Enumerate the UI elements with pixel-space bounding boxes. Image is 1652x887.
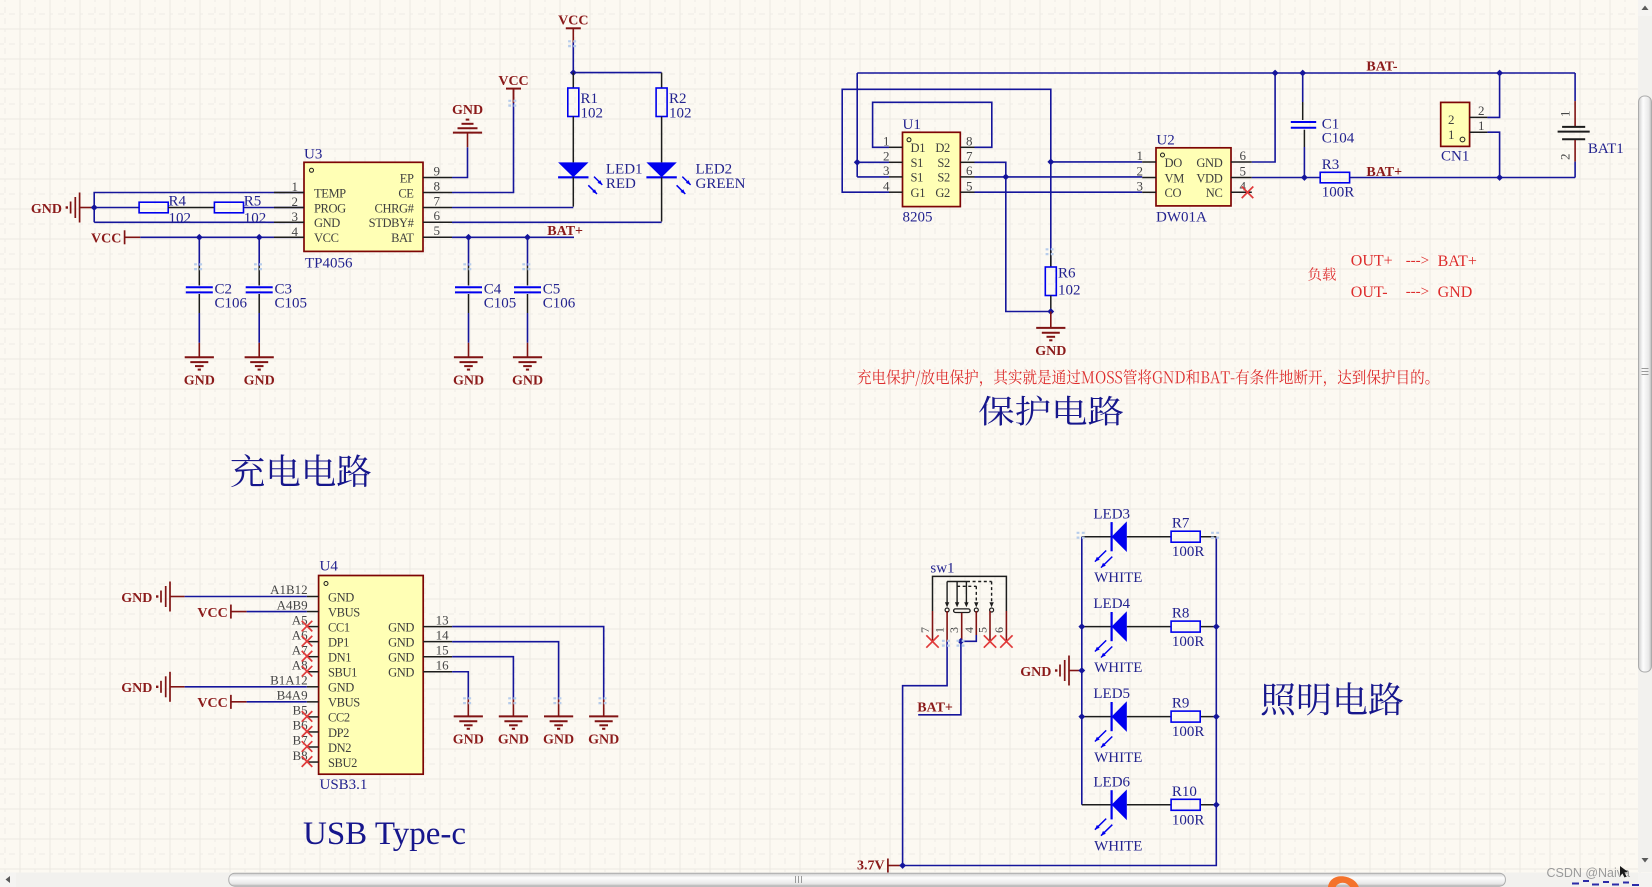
svg-text:BAT+: BAT+ [1366,165,1402,180]
wire pin16 to ground [452,672,468,700]
svg-text:GND: GND [388,666,414,680]
wire R4 to R5 [168,207,214,209]
junction sw1 pin3 [958,638,965,645]
wire LED2 to STDBY# pin6 [661,177,663,221]
ground GND usb4 [588,716,619,747]
wire TEMP net pin1 loop [94,193,304,223]
ground GND below C3 [244,357,275,388]
resistor R10 [1171,784,1204,829]
svg-text:2: 2 [292,194,299,209]
wire R3 to battery BAT+ rail [1350,177,1576,179]
CSDN watermark [1546,866,1630,880]
wire U2 GND pin6 to BAT- [1252,73,1275,162]
ground GND above EP [452,103,483,133]
ground GND below R6 [1035,328,1066,359]
wire S2 pin6 to U2 VM pin2 [975,176,1143,178]
svg-text:DO: DO [1165,156,1183,170]
svg-text:100R: 100R [1172,724,1205,740]
wire GND to B1A12 [185,686,307,688]
svg-text:1: 1 [933,627,947,633]
title lighting circuit [1262,682,1403,715]
U1 right pins 8-5 [960,134,974,194]
no connect X marks on U4 pins [302,621,313,767]
svg-text:D1: D1 [911,141,926,155]
svg-text:1: 1 [1448,127,1455,142]
svg-text:102: 102 [1058,283,1081,299]
svg-text:BAT+: BAT+ [1438,253,1477,270]
wire EP pin9 to ground [452,147,468,177]
IC U4 USB3.1 connector [319,559,424,794]
wire U2 VDD pin5 to R3 [1252,177,1320,179]
svg-text:EP: EP [400,171,414,185]
LED LED4 WHITE [1093,596,1142,676]
wire G1 loop to R6/DO [842,89,1051,267]
svg-text:VCC: VCC [197,606,227,621]
svg-text:CHRG#: CHRG# [375,201,415,215]
svg-text:TEMP: TEMP [314,186,346,200]
svg-text:R6: R6 [1058,265,1076,281]
capacitor C4 [455,237,516,357]
U3 left pins 1-4 [274,179,304,239]
svg-text:2: 2 [883,149,890,164]
power port VCC (left) [91,230,140,246]
wire CN1 pin1 to BAT+ [1487,132,1499,177]
wire CN1 pin2 to BAT- [1487,73,1499,117]
no connect X on U2 pin4 [1242,187,1254,199]
svg-text:1: 1 [1137,148,1144,163]
svg-text:1: 1 [1478,118,1485,133]
wire LED5 row [1082,716,1112,718]
svg-text:GND: GND [388,651,414,665]
svg-text:R7: R7 [1172,516,1190,532]
svg-text:GND: GND [588,733,619,748]
svg-text:102: 102 [169,211,192,227]
power port GND (lighting) [1020,656,1083,686]
svg-text:GND: GND [328,590,354,604]
svg-text:VDD: VDD [1196,171,1222,185]
LED LED1 RED [558,162,642,195]
svg-text:S2: S2 [937,156,950,170]
wire CE pin8 to VCC [452,103,514,193]
wire LED left bus [1081,537,1083,805]
IC U2 DW01A protector [1156,133,1231,226]
junction DO node [1047,159,1054,166]
junction LED6 right [1213,801,1220,808]
svg-text:3: 3 [947,627,961,633]
svg-text:U1: U1 [903,117,921,133]
svg-text:GND: GND [512,373,543,388]
ground GND below C5 [512,357,543,388]
svg-text:7: 7 [434,193,441,208]
svg-text:TP4056: TP4056 [305,256,353,272]
svg-text:6: 6 [434,208,441,223]
junction C1 bottom [1301,174,1308,181]
svg-text:GND: GND [121,591,152,606]
resistor R3 [1320,157,1354,200]
connector CN1 [1441,102,1470,164]
svg-text:--->: ---> [1406,284,1429,300]
svg-text:13: 13 [436,612,449,627]
wire G2 pin5 to U2 CO pin3 [975,191,1143,193]
svg-text:R8: R8 [1172,606,1190,622]
svg-text:--->: ---> [1406,253,1429,269]
resistor R4 [139,194,191,227]
svg-text:4: 4 [883,178,890,193]
U4 right pins 13-16 [423,612,452,672]
load annotation fuzai [1308,267,1336,280]
svg-text:WHITE: WHITE [1094,660,1142,676]
wire LED4 row [1082,626,1112,628]
resistor R8 [1171,606,1204,651]
svg-text:GND: GND [1035,344,1066,359]
svg-text:6: 6 [966,163,973,178]
capacitor C3 [246,237,307,357]
svg-text:3.7V: 3.7V [857,858,885,873]
svg-text:NC: NC [1206,186,1223,200]
svg-text:C106: C106 [543,295,576,311]
wire S2 pin7 down [975,162,1051,311]
junction C4 [465,234,472,241]
svg-text:GND: GND [244,373,275,388]
svg-text:BAT: BAT [391,231,414,245]
junction S2-VM [1002,174,1009,181]
svg-text:100R: 100R [1172,634,1205,650]
wire LED3 row [1082,536,1112,538]
junction C2 [196,234,203,241]
svg-text:4: 4 [292,224,299,239]
junction R1 R2 [570,69,577,76]
LED LED5 WHITE [1093,686,1142,766]
svg-text:5: 5 [966,178,973,193]
ground GND usb1 [453,716,484,747]
power port GND (USB B side) [121,672,184,702]
wire D1-D2 loop [873,102,992,147]
junction LED5 right [1213,713,1220,720]
svg-text:DW01A: DW01A [1156,210,1207,226]
svg-text:A4B9: A4B9 [277,597,308,612]
svg-text:100R: 100R [1322,184,1355,200]
svg-text:8205: 8205 [903,210,933,226]
svg-text:6: 6 [992,627,1006,633]
svg-text:GREEN: GREEN [696,176,746,192]
svg-text:OUT+: OUT+ [1351,253,1393,270]
wire pin15 to ground [452,657,513,700]
resistor R9 [1171,696,1204,741]
ground GND usb3 [543,716,574,747]
svg-text:1: 1 [292,179,299,194]
svg-text:sw1: sw1 [930,561,954,577]
svg-text:5: 5 [434,223,441,238]
svg-text:GND: GND [388,620,414,634]
svg-text:R10: R10 [1172,784,1197,800]
vertical scrollbar [1638,0,1652,872]
svg-text:USB3.1: USB3.1 [320,777,368,793]
svg-text:GND: GND [388,635,414,649]
svg-text:102: 102 [581,106,604,122]
svg-text:GND: GND [543,733,574,748]
svg-text:BAT+: BAT+ [917,701,953,716]
wire VCC to pin4 [140,236,304,238]
wire BAT- down to U1 pin2/pin3 [857,73,889,177]
svg-text:100R: 100R [1172,812,1205,828]
svg-text:8: 8 [434,178,441,193]
resistor R7 [1171,516,1204,561]
svg-text:C104: C104 [1322,131,1355,147]
svg-text:U4: U4 [320,559,339,575]
power port 3.7V [857,858,902,873]
switch sw1 [930,561,1006,613]
svg-text:3: 3 [1137,179,1144,194]
wire to R2 top [661,73,663,88]
LED LED3 WHITE [1093,506,1142,586]
svg-text:LED5: LED5 [1093,686,1130,702]
compile marks [194,41,1221,703]
svg-text:8: 8 [966,134,973,149]
svg-text:S2: S2 [937,171,950,185]
wire BAT pin5 [452,236,574,238]
U2 right pins 6-4 [1231,148,1252,193]
junction LED4 right [1213,623,1220,630]
wire LED1 to CHRG# pin7 [572,177,574,206]
junction CN1 pin1 [1496,174,1503,181]
svg-text:C105: C105 [275,295,308,311]
no connect X sw1 pin5 [984,635,996,647]
junction BAT- GND [1272,70,1279,77]
svg-text:VBUS: VBUS [328,696,360,710]
junction CN1 pin2 [1496,70,1503,77]
svg-text:6: 6 [1240,148,1247,163]
resistor R5 [214,194,266,227]
svg-text:CN1: CN1 [1441,149,1469,165]
svg-text:GND: GND [328,681,354,695]
power port VCC (LED supply) [558,14,588,43]
svg-text:2: 2 [1448,112,1455,127]
svg-text:CO: CO [1165,186,1182,200]
svg-text:SBU2: SBU2 [328,756,357,770]
svg-text:GND: GND [453,733,484,748]
resistor R1 [568,88,603,122]
svg-text:GND: GND [1196,156,1222,170]
battery BAT1 [1558,73,1624,178]
wire to R1 [572,73,574,88]
svg-text:VCC: VCC [91,232,121,247]
svg-text:VM: VM [1165,171,1185,185]
svg-text:GND: GND [121,681,152,696]
svg-text:RED: RED [606,176,636,192]
capacitor C1 [1291,73,1355,178]
svg-text:A1B12: A1B12 [270,582,308,597]
svg-text:VBUS: VBUS [328,605,360,619]
svg-text:BAT1: BAT1 [1588,141,1624,157]
svg-text:USB Type-c: USB Type-c [303,816,466,852]
power port GND (USB A side) [121,582,184,612]
red note annotation [857,369,1429,386]
svg-text:U3: U3 [304,147,322,163]
svg-text:VCC: VCC [558,14,588,29]
svg-text:S1: S1 [911,156,924,170]
wire net BAT- top rail [857,72,1575,74]
U2 left pins 1-3 [1137,148,1157,193]
junction R6 bottom [1047,308,1054,315]
junction 3.7V [899,862,906,869]
svg-text:5: 5 [976,627,990,633]
no connect X sw1 pin7 [926,635,938,647]
LED LED6 WHITE [1093,774,1142,854]
svg-text:1: 1 [1558,111,1573,118]
capacitor C2 [186,237,248,357]
wire VCC to B4A9 [247,701,307,703]
svg-text:WHITE: WHITE [1094,570,1142,586]
svg-text:VCC: VCC [498,74,528,89]
junction U1 S1 pins [854,159,861,166]
svg-text:VCC: VCC [314,231,339,245]
title charging circuit [231,454,371,487]
wire pin13 to ground [452,627,604,700]
IC U3 TP4056 [304,147,423,272]
horizontal scrollbar [0,873,1652,887]
svg-text:14: 14 [436,627,450,642]
svg-text:GND: GND [498,733,529,748]
svg-text:LED6: LED6 [1093,774,1130,790]
svg-text:VCC: VCC [197,696,227,711]
svg-text:2: 2 [1137,164,1144,179]
svg-text:DN1: DN1 [328,651,351,665]
svg-text:100R: 100R [1172,544,1205,560]
svg-text:DN2: DN2 [328,741,351,755]
wire GND net pin3 loop [94,221,304,223]
wire R5 to PROG pin2 [244,207,305,209]
svg-text:WHITE: WHITE [1094,838,1142,854]
svg-text:GND: GND [1020,665,1051,680]
ground GND below C4 [453,357,484,388]
junction C1 top [1299,70,1306,77]
junction LED4 left [1078,623,1085,630]
wire GND to R4 [94,207,139,209]
svg-text:5: 5 [1240,164,1247,179]
junction C3 [256,234,263,241]
svg-text:7: 7 [966,149,973,164]
wire VCC to junction [572,43,574,73]
svg-text:CC2: CC2 [328,711,350,725]
wire DO node to U2 pin1 [1051,161,1142,163]
IC U1 8205 dual MOSFET [903,117,961,226]
power port VCC (USB A side) [197,605,246,621]
svg-text:CSDN @Naiva: CSDN @Naiva [1546,866,1630,880]
svg-text:U2: U2 [1156,133,1174,149]
wire junction to R2 [573,72,661,74]
svg-text:GND: GND [453,373,484,388]
power port GND (charging input side) [31,193,94,223]
svg-text:102: 102 [244,211,266,227]
svg-text:R9: R9 [1172,696,1190,712]
svg-text:16: 16 [436,657,450,672]
wire LED right bus [1215,537,1217,805]
svg-text:SBU1: SBU1 [328,666,357,680]
svg-text:102: 102 [669,106,692,122]
CSDN logo fragment [1328,876,1359,887]
power port VCC (CE pull) [498,74,528,103]
svg-text:2: 2 [1558,154,1573,161]
svg-text:B4A9: B4A9 [277,688,308,703]
ground GND usb2 [498,716,529,747]
svg-text:C105: C105 [484,295,517,311]
wire R2 to LED2 [661,117,663,163]
wire GND to A1B12 [185,596,307,598]
svg-text:7: 7 [918,627,932,633]
svg-text:BAT+: BAT+ [547,224,583,239]
U1 left pins 1-4 [883,134,903,194]
wire pin14 to ground [452,642,558,700]
svg-text:C106: C106 [215,295,248,311]
svg-text:GND: GND [31,202,62,217]
svg-text:LED4: LED4 [1093,596,1130,612]
wire 3.7V bottom rail [902,805,1217,866]
wire R6 to GND [1050,312,1052,328]
junction GND-LED bus [1078,667,1085,674]
ground GND below C2 [184,357,215,388]
svg-text:OUT-: OUT- [1351,284,1388,301]
svg-text:BAT-: BAT- [1366,60,1397,75]
svg-text:CC1: CC1 [328,620,350,634]
junction C5 [524,234,531,241]
svg-text:DP1: DP1 [328,635,349,649]
capacitor C5 [514,237,576,357]
wire sw1 pin3 to BAT+ label [918,641,961,715]
svg-text:4: 4 [962,627,976,633]
svg-text:9: 9 [434,163,441,178]
svg-text:3: 3 [292,209,299,224]
LED LED2 GREEN [646,162,745,195]
resistor R2 [656,88,691,122]
junction at GND port [91,204,98,211]
CN1 pins 2,1 [1470,103,1488,133]
power port VCC (USB B side) [197,695,246,711]
svg-text:GND: GND [452,103,483,118]
svg-text:2: 2 [1478,103,1485,118]
svg-text:GND: GND [1438,284,1473,301]
junction LED5 left [1078,713,1085,720]
svg-text:15: 15 [436,642,449,657]
resistor R6 [1045,250,1080,312]
wire sw1 pin4 to pin3 [961,635,976,641]
U4 left pins A/B [270,582,318,763]
svg-text:1: 1 [883,134,890,149]
wire sw1 pin1 to 3.7V rail [903,642,948,866]
wire VCC to A4B9 [247,611,307,613]
svg-text:DP2: DP2 [328,726,349,740]
wire LED6 row [1082,804,1112,806]
U3 right pins 9-5 [423,163,452,238]
svg-text:G2: G2 [935,186,950,200]
svg-text:LED3: LED3 [1093,506,1130,522]
svg-text:GND: GND [184,373,215,388]
svg-text:B1A12: B1A12 [270,673,308,688]
svg-text:GND: GND [314,216,340,230]
svg-text:STDBY#: STDBY# [369,216,415,230]
svg-text:CE: CE [398,186,414,200]
svg-text:WHITE: WHITE [1094,750,1142,766]
no connect X sw1 pin6 [1000,635,1012,647]
svg-text:R3: R3 [1322,157,1340,173]
sw1 pins 7 1 3 4 5 6 [918,611,1006,642]
svg-text:PROG: PROG [314,201,346,215]
svg-text:G1: G1 [911,186,926,200]
svg-text:S1: S1 [911,171,924,185]
svg-text:3: 3 [883,163,890,178]
wire R1 to LED1 [572,117,574,163]
svg-text:D2: D2 [935,141,950,155]
title protection circuit [979,396,1123,426]
